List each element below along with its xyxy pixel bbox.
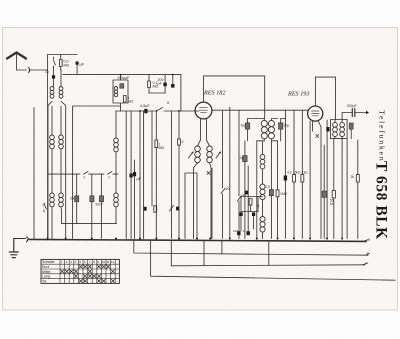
switch row marks y207 (144, 207, 147, 211)
table X marks (60, 265, 114, 283)
ground rail arrow (14, 237, 28, 242)
wire x171 (171, 111, 173, 239)
osc coil stack 3 (260, 184, 265, 200)
ground symbol (9, 239, 18, 258)
capacitor 4.5uF on bus (144, 109, 147, 113)
capacitor hatched x351 (349, 123, 353, 129)
svg-text:MΩ: MΩ (64, 63, 70, 67)
svg-text:c: c (367, 250, 369, 255)
plug connector (29, 68, 30, 73)
rail end tick c (366, 254, 370, 256)
output transformer (333, 122, 338, 136)
capacitor hatched small (120, 84, 124, 89)
capacitor blob x131 (130, 174, 133, 178)
svg-text:Mittel: Mittel (42, 270, 51, 274)
capacitor hatched mid (90, 196, 94, 202)
capacitor hatched x324 (322, 191, 326, 197)
main ground rail a (29, 239, 366, 241)
capacitor hatched AF coupling (269, 190, 273, 196)
svg-text:RES 182: RES 182 (203, 90, 225, 97)
svg-text:10µ: 10µ (284, 124, 290, 128)
capacitor hatched 50nF (99, 196, 103, 202)
capacitor 200uF blob (163, 83, 166, 87)
svg-text:35nF: 35nF (70, 197, 77, 201)
wire bus drop x180 (180, 75, 182, 111)
wire x71 (73, 106, 121, 239)
svg-text:500µF: 500µF (347, 104, 357, 108)
wire sub-box hang (120, 75, 122, 111)
sub rail c (134, 240, 368, 255)
blob mark (176, 207, 179, 211)
transformer T1 secondary (59, 87, 63, 99)
coil L6 (114, 87, 117, 97)
resistor grid leak (178, 111, 181, 239)
wire rc link (149, 92, 165, 94)
svg-text:100: 100 (233, 229, 238, 233)
wire V2 anode loop (315, 77, 335, 119)
labels small values (42, 60, 357, 234)
wire osc bottoms (194, 163, 212, 239)
wire drop x172 (172, 75, 174, 84)
trimmer arrow left (189, 152, 194, 158)
svg-text:RES 193: RES 193 (287, 91, 309, 98)
wire T1 secondary top (60, 70, 62, 87)
wire x324 (323, 145, 325, 239)
svg-text:10: 10 (102, 260, 106, 264)
wire V2 leads (313, 121, 322, 239)
capacitor grid blob (133, 172, 136, 176)
rail end tick a (364, 240, 368, 242)
wire coil column (262, 141, 264, 239)
wire to speaker terminal (342, 113, 366, 120)
wire T1 bottoms (48, 101, 66, 238)
resistor small (154, 206, 157, 212)
grid bus y74 (63, 74, 181, 76)
osc coil stack 2 (260, 155, 265, 169)
wire x126 (125, 111, 127, 239)
svg-text:100µµF: 100µµF (117, 76, 130, 80)
resistor x302 (301, 175, 304, 182)
sub rail 4 (151, 240, 395, 280)
switch 11 (238, 196, 242, 202)
wire T3 bottoms (52, 207, 62, 238)
capacitor blob x172 (171, 84, 174, 88)
speaker capacitor plates (352, 109, 355, 117)
capacitor hatched 10u left (245, 123, 249, 129)
wire L4-L5 column (115, 111, 117, 224)
svg-text:Kurz: Kurz (42, 265, 49, 269)
resistor cathode 1 Mohm (155, 111, 158, 239)
wave switch row 7a (48, 172, 118, 175)
antenna (7, 53, 26, 59)
wire left long vertical (33, 108, 35, 239)
svg-text:11: 11 (106, 260, 109, 264)
wire cap link (164, 75, 166, 93)
trimmer arrow right (216, 152, 221, 158)
svg-text:2k: 2k (351, 175, 355, 179)
capacitor C blob (76, 62, 79, 65)
svg-text:Telefunken: Telefunken (378, 110, 387, 162)
wire x152 (151, 111, 153, 206)
coil L5 (114, 193, 119, 207)
svg-text:50nF: 50nF (96, 203, 103, 207)
bracket x185-197 (185, 173, 197, 239)
resistor 1 Mohm (123, 96, 126, 103)
transformer T3 primary (50, 193, 55, 207)
svg-text:kΩ: kΩ (330, 202, 335, 206)
resistor 0.5 Mohm (59, 55, 62, 71)
svg-text:1kΩ: 1kΩ (302, 171, 308, 175)
wire T2 leads (52, 106, 61, 193)
wire cap drops (77, 174, 102, 238)
wire x143 (143, 111, 145, 239)
wire cluster bar top (241, 196, 263, 198)
transformer T2 secondary (59, 135, 64, 149)
wire osc cap (244, 141, 246, 239)
x mark (207, 172, 210, 175)
switch 10 (221, 189, 225, 194)
svg-text:µF: µF (137, 176, 142, 181)
sub-box V1 grid top (113, 80, 128, 103)
svg-text:Schalter: Schalter (42, 260, 56, 264)
resistor x294 (293, 175, 296, 182)
svg-text:10µ: 10µ (241, 124, 247, 128)
capacitor hatched 10u right (279, 123, 283, 129)
wire anode loop (204, 76, 265, 119)
switch mark (170, 206, 174, 212)
transformer T1 primary (50, 87, 54, 99)
wire x131 (130, 111, 132, 239)
switch 7 left (44, 203, 46, 212)
sub rail o (171, 240, 365, 265)
wire verticals mid right (212, 107, 310, 239)
wire cap drop (76, 65, 78, 75)
svg-text:TA: TA (42, 279, 47, 283)
wire IF link (248, 118, 286, 120)
transformer T2 primary (50, 135, 55, 149)
main bus y111 (116, 110, 199, 112)
wire left vertical (47, 55, 49, 239)
capacitor blob (245, 191, 248, 195)
resistor 400 ohm cluster (249, 199, 252, 206)
svg-text:10: 10 (225, 186, 230, 191)
svg-text:MΩ: MΩ (128, 100, 134, 104)
svg-text:20kΩ: 20kΩ (293, 171, 301, 175)
svg-text:4,5µF: 4,5µF (140, 104, 150, 108)
resistor 0.1 Mohm (148, 75, 151, 93)
wire x140 (139, 111, 141, 239)
svg-text:Lang: Lang (42, 275, 50, 279)
wire cap columns (248, 119, 281, 141)
switch table (41, 259, 119, 283)
capacitor blob pair on rail (237, 231, 240, 235)
wire switch to cap (52, 67, 54, 88)
rail end tick o (363, 263, 367, 265)
osc coil right (207, 146, 213, 163)
svg-text:1MΩ: 1MΩ (280, 192, 288, 196)
svg-text:15: 15 (45, 70, 49, 74)
capacitor blob x286 (284, 176, 287, 181)
frame (331, 120, 348, 139)
wire V1 cathode leads (198, 119, 210, 146)
wire x134 (134, 160, 136, 239)
wire antenna lead-in (17, 54, 27, 71)
wire RF bus top (213, 109, 308, 111)
resistor 1 Mohm AF (276, 190, 279, 197)
IF transformer coils (261, 120, 267, 138)
capacitor blob cluster2 (252, 212, 255, 216)
svg-text:T 658 BLK: T 658 BLK (373, 161, 390, 240)
osc coil stack 4 (260, 217, 265, 233)
tube V1 RES182 (195, 102, 212, 119)
wire to input box (31, 69, 48, 71)
coil L4 mid column (114, 138, 119, 152)
resistor 50k x333 (332, 191, 335, 199)
svg-text:MΩ: MΩ (159, 146, 165, 150)
capacitor 4.5uF blob (52, 75, 55, 78)
osc coil left (195, 146, 201, 163)
terminal arrow A (366, 111, 369, 114)
svg-text:12: 12 (111, 260, 115, 264)
input box top wire (48, 54, 78, 56)
switch 5 on bus (157, 108, 164, 112)
tube V2 RES193 (308, 106, 323, 121)
capacitor hatched 35nF (75, 196, 79, 202)
svg-text:µF: µF (80, 62, 85, 67)
switch S1 (53, 57, 55, 68)
svg-text:4,3: 4,3 (287, 171, 292, 175)
wire bottom link bar (62, 223, 117, 225)
x mark V2 (316, 135, 319, 138)
svg-text:2: 2 (182, 140, 184, 144)
capacitor blob x328 (326, 127, 329, 131)
capacitor blob cluster1 (240, 212, 243, 216)
wire cluster risers (241, 197, 258, 232)
resistor 2k right (356, 140, 359, 239)
wire out column (327, 120, 351, 239)
capacitor hatched osc (243, 156, 247, 162)
rail letters (366, 237, 371, 265)
IF frame wires (257, 119, 278, 141)
transformer T3 secondary (59, 193, 64, 207)
svg-text:10µ: 10µ (238, 156, 244, 160)
svg-text:0,5: 0,5 (265, 185, 270, 189)
wire cluster bar mid (241, 211, 258, 213)
